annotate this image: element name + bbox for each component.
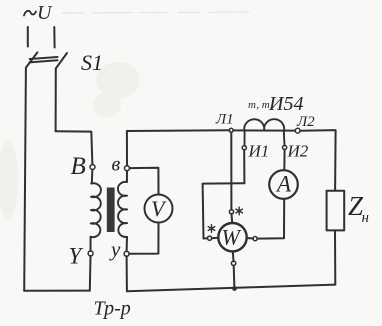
paper smudge xyxy=(0,62,140,220)
wire: bend to terminal B xyxy=(56,131,93,164)
svg-text:A: A xyxy=(275,172,292,197)
junction xyxy=(232,286,237,291)
wire: I1 to wattmeter current terminal xyxy=(203,183,245,238)
transformer secondary winding xyxy=(118,182,127,237)
wattmeter top terminal xyxy=(229,210,233,214)
faint ruled line xyxy=(62,12,250,13)
wire: u terminal down to bus xyxy=(126,256,128,291)
svg-text:U: U xyxy=(37,2,53,24)
wire: ammeter top to I2 xyxy=(283,150,285,171)
wire: bottom left bus xyxy=(24,290,90,292)
wire: v terminal to secondary winding xyxy=(126,171,128,182)
label Zn xyxy=(348,191,369,226)
wire: W bottom to terminal xyxy=(232,251,235,261)
current transformer I54 primary humps xyxy=(244,119,284,145)
svg-text:B: B xyxy=(71,153,86,180)
terminal L2 xyxy=(295,128,300,133)
wire: top terminal into W xyxy=(231,214,234,223)
transformer core xyxy=(107,188,115,233)
wire: top bus to L1 xyxy=(127,129,229,132)
wire: W to right terminal xyxy=(247,237,253,240)
wire: secondary winding to u xyxy=(126,237,128,251)
wire: L2 to load corner xyxy=(300,130,336,191)
svg-text:И1: И1 xyxy=(248,142,270,161)
voltmeter V xyxy=(145,195,173,223)
wire: up to terminal Y xyxy=(89,256,92,291)
wire: voltmeter to u xyxy=(129,223,158,254)
transformer primary winding xyxy=(91,183,101,237)
terminal v (secondary top) xyxy=(125,166,130,171)
wire: left terminal into W xyxy=(212,237,219,239)
wire: under CT humps xyxy=(233,129,295,131)
wire: v to voltmeter xyxy=(130,168,159,195)
svg-text:Л1: Л1 xyxy=(215,112,234,128)
wattmeter bottom terminal xyxy=(231,261,235,265)
source label ~U xyxy=(24,2,53,24)
terminal u (secondary bottom) xyxy=(124,251,129,256)
wire: I1 leg down xyxy=(243,150,245,184)
wire: left source stub xyxy=(27,27,29,47)
svg-text:Л2: Л2 xyxy=(296,114,315,130)
wire: right terminal to ammeter xyxy=(257,199,284,239)
wire: right source stub xyxy=(53,27,55,48)
terminal I2 xyxy=(283,145,287,149)
svg-text:у: у xyxy=(109,237,121,261)
terminal L1 xyxy=(229,128,233,132)
svg-text:W: W xyxy=(222,225,242,250)
terminal Y xyxy=(88,251,93,256)
wire: bottom bus xyxy=(127,285,335,292)
wire: bottom terminal to bus xyxy=(233,266,236,289)
wattmeter left terminal xyxy=(208,236,212,240)
wire: secondary top riser xyxy=(126,131,128,166)
load Zn box xyxy=(327,191,345,231)
svg-text:в: в xyxy=(112,154,121,176)
wattmeter right terminal xyxy=(253,237,257,241)
svg-text:И2: И2 xyxy=(287,142,309,161)
wire: right pole down from switch xyxy=(55,69,57,132)
svg-text:S1: S1 xyxy=(81,50,103,75)
svg-text:Y: Y xyxy=(69,244,84,269)
asterisk left xyxy=(208,225,215,233)
wattmeter W xyxy=(218,223,246,251)
wire: left pole down to bottom xyxy=(24,68,26,291)
svg-text:Тр-р: Тр-р xyxy=(94,298,131,320)
wire: L1 down to wattmeter voltage terminal xyxy=(230,132,232,209)
svg-text:н: н xyxy=(362,210,369,226)
switch S1 xyxy=(26,52,67,68)
svg-text:V: V xyxy=(151,196,167,221)
wire: primary winding to Y xyxy=(90,237,92,251)
asterisk top xyxy=(236,207,243,215)
svg-text:И54: И54 xyxy=(268,93,303,115)
terminal B xyxy=(90,165,95,170)
wire: B to primary winding xyxy=(91,170,94,184)
terminal I1 xyxy=(242,146,246,150)
wire: load to bottom bus xyxy=(334,230,336,284)
ammeter A xyxy=(269,170,298,199)
